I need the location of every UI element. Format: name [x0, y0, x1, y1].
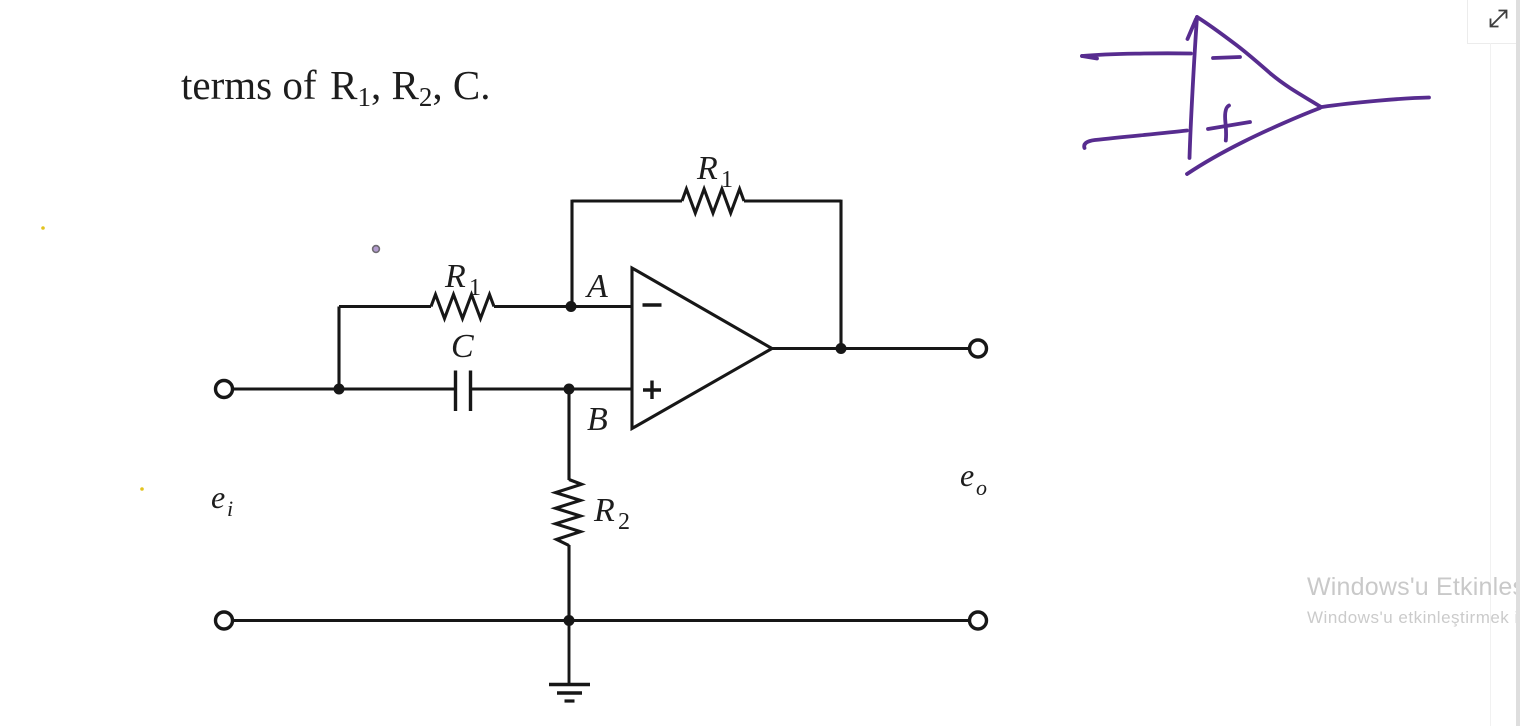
- wire: feedback top-left horizontal: [572, 199, 682, 202]
- op-amp minus sign: [643, 303, 662, 307]
- bottom-right terminal circle: [970, 612, 987, 629]
- sketch: triangle bottom edge: [1187, 108, 1320, 174]
- label R1 (feedback): [696, 150, 733, 193]
- stray yellow dot 1: [41, 226, 45, 230]
- wire: node B down to R2: [567, 389, 570, 480]
- wire: lower branch from capacitor to op-amp plus input: [472, 387, 632, 390]
- label A: [585, 268, 608, 305]
- scrollbar strip: [1516, 0, 1520, 726]
- wire: feedback top-right horizontal: [744, 199, 841, 202]
- svg-text:A: A: [585, 268, 608, 305]
- output terminal circle: [970, 340, 987, 357]
- wire: bottom rail: [233, 619, 969, 622]
- op-amp plus sign: [643, 381, 661, 400]
- svg-text:B: B: [587, 401, 608, 438]
- faint panel divider line: [1490, 43, 1491, 726]
- watermark: Windows activation: [1307, 572, 1516, 629]
- label ei: [211, 479, 233, 521]
- resistor R1 (feedback) zigzag: [682, 189, 744, 213]
- bottom-left terminal circle: [216, 612, 233, 629]
- sketch: triangle left edge: [1190, 17, 1198, 158]
- wire: op-amp output: [772, 347, 968, 350]
- op-amp U1 triangle: [632, 268, 772, 429]
- wire: feedback right vertical (to output node): [839, 200, 842, 349]
- label B: [587, 401, 608, 438]
- sketch: triangle top edge: [1197, 17, 1321, 107]
- svg-text:1: 1: [721, 167, 733, 193]
- wire: middle branch right to op-amp minus input: [494, 305, 632, 308]
- stray yellow dot 2: [140, 487, 144, 491]
- wire: middle branch left: [339, 305, 431, 308]
- svg-text:R: R: [593, 492, 615, 529]
- resistor R1 (input) zigzag: [431, 295, 494, 319]
- svg-text:R: R: [696, 150, 718, 187]
- sketch: output wire: [1322, 98, 1429, 108]
- ground symbol: [549, 621, 590, 702]
- label eo: [960, 457, 987, 500]
- input terminal circle: [216, 381, 233, 398]
- node: output junction dot: [836, 343, 847, 354]
- hand-drawn op-amp sketch (purple): [1082, 17, 1429, 174]
- node A dot: [566, 301, 577, 312]
- node: input junction dot: [334, 384, 345, 395]
- stray purple dot: [373, 246, 380, 253]
- sketch: bottom input wire: [1084, 131, 1187, 149]
- sketch: top input tick: [1082, 56, 1097, 59]
- expand icon: [1487, 7, 1510, 30]
- node: ground junction dot: [564, 615, 575, 626]
- node B dot: [564, 384, 575, 395]
- svg-text:1: 1: [469, 275, 481, 301]
- resistor R2 zigzag (vertical): [556, 480, 582, 546]
- label R2: [593, 492, 630, 535]
- capacitor C plates: [456, 371, 471, 412]
- wire: input leg vertical: [337, 307, 340, 390]
- svg-text:o: o: [976, 475, 987, 500]
- svg-text:i: i: [227, 496, 233, 521]
- sketch: minus sign: [1213, 57, 1240, 58]
- sketch: top input wire: [1082, 53, 1191, 56]
- svg-text:e: e: [960, 457, 974, 493]
- expand button (top right): [1467, 0, 1520, 44]
- svg-text:2: 2: [618, 509, 630, 535]
- wire: lower branch from input terminal to capacitor: [233, 387, 455, 390]
- wire: feedback left vertical (node A up): [570, 200, 573, 307]
- label R1 (input): [444, 258, 481, 301]
- svg-text:R: R: [444, 258, 466, 295]
- sketch: plus horizontal: [1208, 122, 1250, 129]
- sketch: plus vertical: [1225, 106, 1229, 141]
- wire: R2 down to ground rail: [567, 545, 570, 621]
- caption text: terms of R1, R2, C.: [181, 65, 490, 111]
- svg-text:e: e: [211, 479, 225, 515]
- svg-text:C: C: [451, 328, 474, 365]
- sketch: apex hook: [1188, 19, 1197, 39]
- label C: [451, 328, 474, 365]
